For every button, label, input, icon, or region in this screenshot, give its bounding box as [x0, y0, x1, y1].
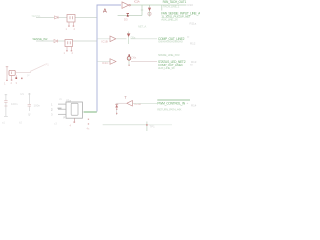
small marks right of X1 — [88, 119, 89, 125]
switch S1 left row3 — [6, 66, 9, 80]
diode D3 dark — [127, 14, 129, 17]
box K1 — [9, 70, 15, 75]
svg-text:AUX_LINE_2X: AUX_LINE_2X — [161, 18, 178, 22]
svg-text:P1: P1 — [46, 63, 50, 67]
svg-text:a1: a1 — [2, 121, 5, 125]
LED D6 vertical row3 — [128, 56, 130, 66]
svg-text:IC1D: IC1D — [135, 102, 141, 106]
wire row2 out — [116, 38, 157, 40]
svg-text:IC1B: IC1B — [102, 40, 108, 44]
svg-text:D6a: D6a — [132, 55, 137, 59]
svg-text:c3: c3 — [54, 122, 57, 126]
resistor R1 box — [67, 15, 75, 23]
wire stub row1b — [118, 15, 142, 17]
bus B1 — [97, 5, 121, 112]
svg-text:R14: R14 — [191, 104, 197, 108]
diode D4 inline row2 — [54, 40, 58, 43]
op-amp U1A triangle — [122, 2, 130, 8]
junction cross on drop — [141, 9, 143, 11]
svg-text:AUX_LINE_3X: AUX_LINE_3X — [158, 66, 175, 70]
diode D2 on drop — [148, 8, 151, 15]
svg-text:X1a: X1a — [66, 98, 71, 102]
diode D7 vertical bottom — [116, 103, 118, 115]
capacitor C2 — [28, 93, 31, 111]
wire row3 input — [97, 61, 110, 63]
svg-text:XXIXXHXXIXXXXIXIXXXX: XXIXXHXXIXXXXIXIXXXX — [158, 39, 183, 43]
wire row2 — [36, 40, 97, 42]
svg-text:+: + — [187, 101, 189, 105]
wire row1 left — [36, 16, 97, 18]
svg-text:SENSE_IN2: SENSE_IN2 — [32, 37, 47, 41]
svg-text:PWM_CONTROL_IN: PWM_CONTROL_IN — [157, 102, 186, 106]
svg-text:R11a: R11a — [190, 21, 197, 25]
svg-text:TP1: TP1 — [150, 124, 156, 128]
resistor R2 box — [65, 40, 73, 47]
svg-text:b2: b2 — [19, 121, 22, 125]
green labels bottom right — [157, 99, 190, 101]
wire row1 output — [131, 5, 187, 17]
K1 pins — [12, 75, 17, 79]
X1 left pins — [58, 104, 66, 114]
svg-text:100n: 100n — [11, 102, 18, 106]
X1 bottom pin — [73, 118, 75, 121]
svg-text:R10: R10 — [188, 3, 194, 7]
op-amp U1C triangle — [110, 59, 116, 65]
svg-text:SPARE_LINE_XX3: SPARE_LINE_XX3 — [158, 53, 180, 57]
svg-text:A: A — [103, 9, 107, 15]
svg-text:R12: R12 — [190, 41, 196, 45]
svg-text:100n: 100n — [34, 103, 41, 107]
capacitor C1 — [4, 94, 8, 116]
svg-text:IC1A: IC1A — [134, 0, 140, 4]
op-amp U1D triangle left-facing — [127, 101, 133, 107]
wire T4 output — [117, 102, 127, 104]
svg-text:IC1C: IC1C — [102, 61, 108, 65]
wire T4 input — [133, 102, 157, 104]
wire X1 output green — [84, 111, 97, 113]
svg-text:NET_A: NET_A — [138, 25, 146, 29]
pads row3 — [6, 80, 12, 82]
diode D1 inline row1 — [55, 16, 59, 19]
wire row3 left — [15, 72, 31, 74]
svg-text:TACH_LINE_1: TACH_LINE_1 — [163, 4, 180, 8]
op-amp U1B triangle — [110, 36, 116, 42]
label line diagonal — [30, 65, 45, 72]
diode D5 vertical row2 — [128, 32, 130, 45]
svg-text:FAN_TACH_OUT1: FAN_TACH_OUT1 — [163, 0, 187, 4]
svg-text:D3: D3 — [124, 18, 128, 22]
R1 pins — [69, 22, 74, 26]
R2 pins — [67, 47, 72, 51]
wire bottom long — [103, 124, 147, 126]
tick above T4 — [125, 96, 127, 99]
svg-text:RETURN_PATH_44X: RETURN_PATH_44X — [157, 107, 181, 111]
node J1 — [146, 122, 148, 132]
wire row3 out — [131, 61, 157, 63]
svg-text:GN: GN — [20, 92, 24, 96]
IC X1 connector — [66, 102, 82, 118]
